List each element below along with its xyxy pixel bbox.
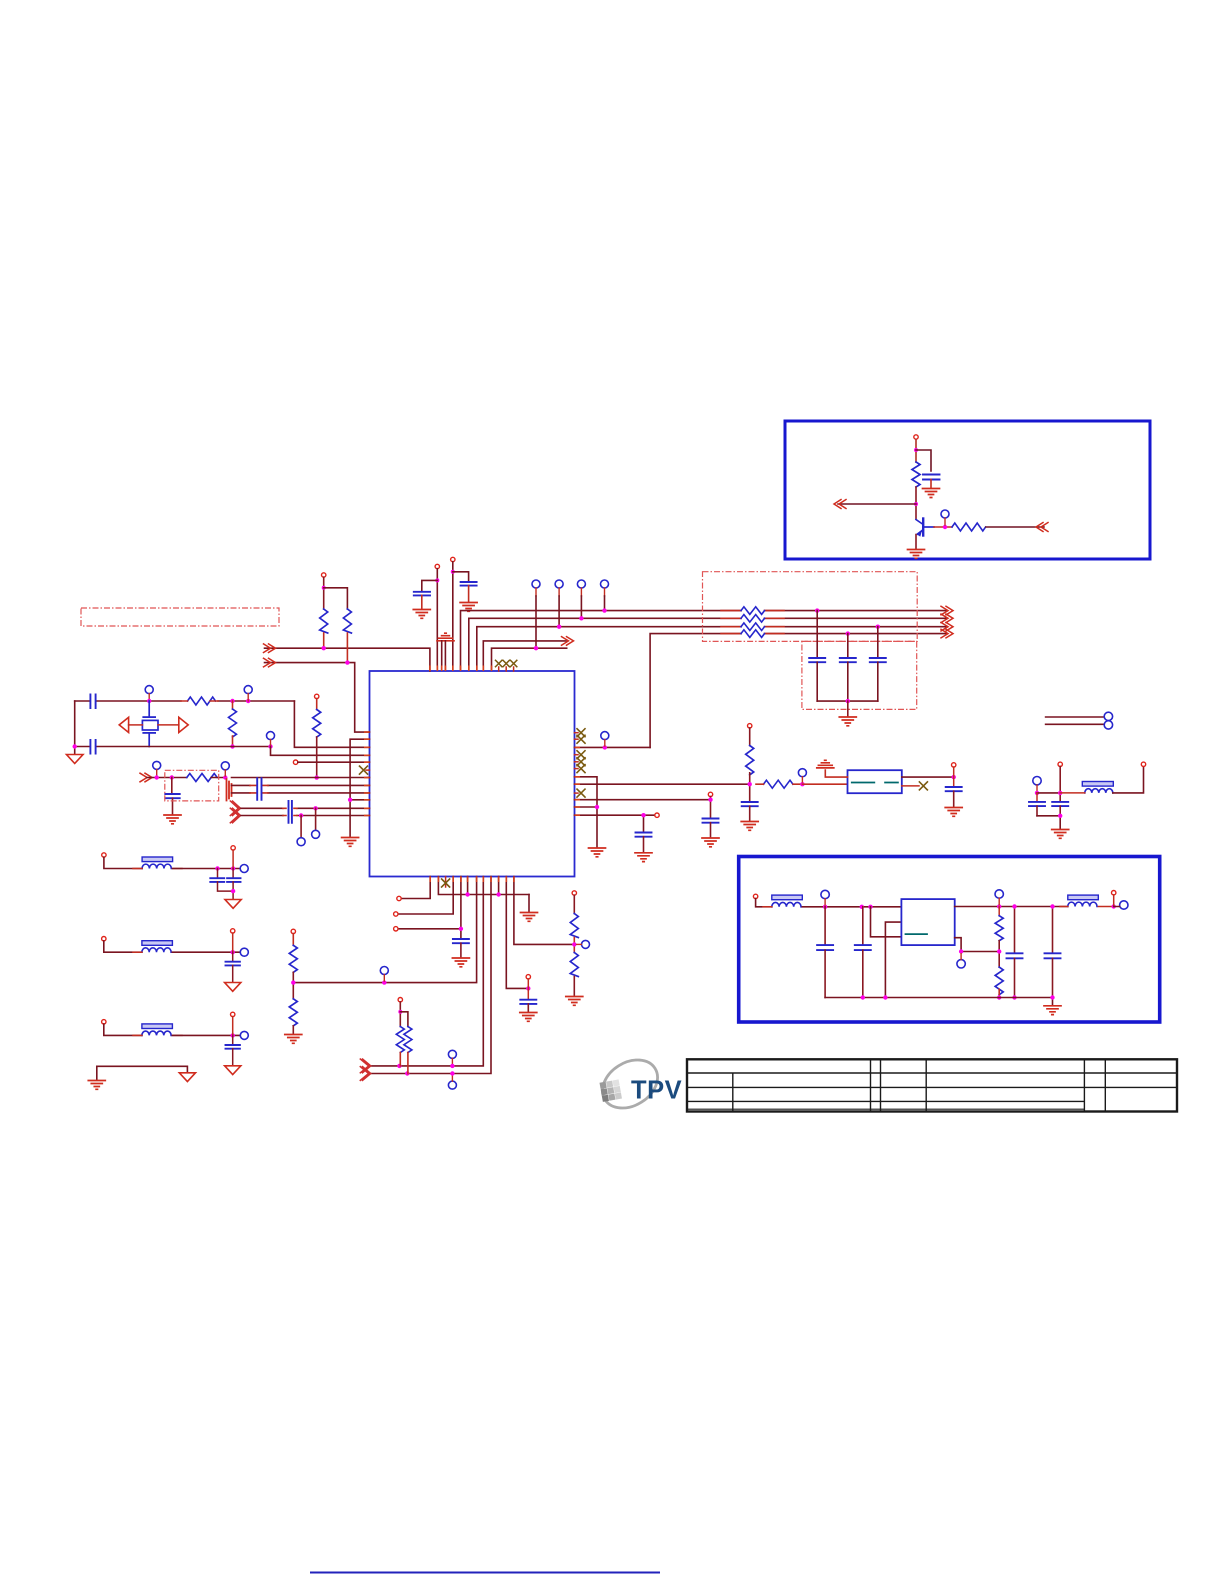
resistor RP4 — [741, 630, 765, 638]
arrow out L2 — [941, 614, 953, 623]
power terminal — [1141, 762, 1145, 766]
terminal small — [231, 1012, 235, 1016]
node H4 — [382, 980, 386, 984]
node K1 — [397, 1064, 401, 1068]
port circle P8 — [267, 732, 275, 740]
wire — [300, 816, 302, 838]
resistor RP1 — [741, 607, 765, 615]
wire — [172, 1034, 240, 1036]
wire crystal top net — [75, 700, 295, 702]
node M1 — [215, 866, 219, 870]
port circle P13 — [601, 732, 609, 740]
node P2j — [534, 646, 538, 650]
bus entry chevrons — [230, 801, 240, 823]
port circle P9 — [153, 761, 161, 769]
wire bus L3 — [477, 627, 946, 671]
inductor FB2 — [142, 857, 173, 862]
no-connect stub X4 — [366, 769, 370, 771]
node T1 — [322, 586, 326, 590]
power terminal VCC4 — [322, 573, 326, 577]
capacitor C2 — [414, 592, 430, 596]
ground — [413, 610, 430, 619]
title block table — [687, 1059, 1177, 1111]
port circle P10 — [221, 762, 229, 770]
wire L5 with arrow — [483, 641, 566, 671]
power terminal IF — [748, 724, 752, 728]
wire — [986, 526, 1044, 528]
ground — [285, 1035, 302, 1044]
wire — [1037, 792, 1060, 794]
node G2 — [299, 813, 303, 817]
resistor RP2 — [741, 615, 765, 623]
node P4j — [579, 616, 583, 620]
port circle P19 — [448, 1050, 456, 1058]
port circle P23 — [240, 948, 248, 956]
wire — [535, 596, 537, 648]
node X2c — [268, 744, 272, 748]
node V4 — [959, 949, 963, 953]
port circle P27 — [995, 890, 1003, 898]
wire — [802, 906, 901, 908]
node V9 — [1012, 995, 1016, 999]
node cap-bank — [846, 699, 850, 703]
node X2b — [230, 744, 234, 748]
capacitor C6 — [870, 658, 886, 662]
arrow marker left of crystal — [119, 717, 128, 732]
node K6 — [291, 980, 295, 984]
node X1b — [230, 699, 234, 703]
node V10 — [1050, 904, 1054, 908]
wire RC filter input — [147, 777, 187, 779]
node D3 — [708, 798, 712, 802]
node K4 — [450, 1064, 454, 1068]
series capacitor C11 (tall plates) — [289, 801, 292, 823]
node V7 — [997, 995, 1001, 999]
port circle P12 — [297, 838, 305, 846]
terminal small — [526, 975, 530, 979]
wire IC pin jog — [575, 777, 598, 847]
port circle P20 — [448, 1081, 456, 1089]
resistor R17 — [998, 907, 1000, 916]
node A3 — [943, 525, 947, 529]
node D5 — [800, 782, 804, 786]
left divider power terminal — [291, 929, 295, 933]
resistor RP3 — [741, 623, 765, 631]
arrow out L1 — [941, 606, 953, 615]
wire — [324, 588, 348, 609]
ground — [1052, 830, 1069, 839]
node M5 — [231, 1033, 235, 1037]
inductor FB5 — [772, 895, 803, 900]
node X2a — [73, 744, 77, 748]
ground — [1044, 1006, 1061, 1015]
ground — [88, 1081, 105, 1090]
wire reg gnd-pin drop — [885, 922, 901, 997]
no-connect stub X11 — [902, 785, 919, 787]
no-connect stub X1 — [498, 667, 500, 671]
wire reg enable loop — [871, 907, 902, 937]
wire red pin stubs at IC edges — [364, 666, 580, 883]
port circle P6 — [145, 686, 153, 694]
wire — [847, 634, 849, 657]
port circle P5 — [601, 580, 609, 588]
node B1 — [435, 578, 439, 582]
node V2 — [860, 905, 864, 909]
wire reg output — [955, 906, 1068, 908]
ground — [589, 848, 606, 857]
bottom rail wire — [825, 998, 1052, 1005]
port circle P26 — [957, 960, 965, 968]
power terminal VCC2 — [435, 564, 439, 568]
node K3 — [398, 1010, 402, 1014]
IC U1 main chip body — [370, 671, 575, 877]
wire — [298, 761, 370, 763]
ground — [923, 489, 940, 498]
node B2 — [451, 570, 455, 574]
resistor R2 — [952, 523, 986, 531]
wire pair B to IC — [241, 807, 370, 809]
wire gnd link — [97, 1066, 188, 1079]
port circle P1 — [941, 510, 949, 518]
ground — [741, 822, 758, 831]
capacitor C23 — [232, 1035, 234, 1044]
node G1 — [313, 806, 317, 810]
wire bus L2 — [469, 618, 946, 671]
box: top-right sub-circuit frame — [785, 421, 1150, 559]
resistor R3 — [188, 697, 216, 705]
capacitor C21 — [232, 869, 234, 878]
SAW filter U2 — [848, 770, 902, 793]
resistor R7 — [313, 710, 321, 738]
resistor R12 — [404, 1027, 412, 1053]
resistor R16 — [289, 999, 297, 1026]
wire — [604, 596, 606, 611]
wire reg adj pin — [955, 938, 1000, 952]
node P5j — [602, 608, 606, 612]
wire second feed to IC left — [265, 663, 370, 733]
capacitor C26 — [1014, 907, 1016, 953]
wire long net to IF — [575, 783, 750, 785]
wire — [915, 487, 917, 519]
wire — [400, 1012, 408, 1027]
capacitor C1 — [923, 475, 940, 480]
node A1 — [914, 448, 918, 452]
wire top-left feed to IC — [265, 648, 430, 671]
wire crystal top to IC XTAL1 — [294, 701, 369, 747]
wire — [934, 526, 952, 528]
wire bus L1 — [461, 611, 947, 671]
transistor Q1 — [916, 519, 934, 549]
port circle P28 — [1120, 901, 1128, 909]
node V8 — [1012, 904, 1016, 908]
node V11 — [861, 995, 865, 999]
wire — [172, 951, 240, 953]
node L3-C — [876, 625, 880, 629]
wire SAW out — [902, 776, 954, 778]
ground — [452, 958, 469, 967]
ground — [566, 997, 583, 1006]
resistor R4 — [232, 701, 234, 709]
crystal Y1 — [142, 701, 158, 747]
bus entry chevrons bottom — [360, 1059, 371, 1080]
wire net to IC pin — [232, 777, 370, 779]
wire — [877, 627, 879, 657]
ground — [521, 913, 538, 922]
ground triangle — [67, 755, 84, 764]
wire base lead-in — [838, 503, 916, 505]
arrow in net2 — [264, 658, 276, 667]
node X1a — [147, 699, 151, 703]
wire IC pin b10 end node — [498, 877, 500, 895]
port circle P17 — [1033, 777, 1041, 785]
bus ripper symbol — [227, 779, 232, 801]
arrow in net3 — [140, 773, 152, 782]
node D1 — [595, 805, 599, 809]
capacitor C15 — [946, 787, 962, 791]
no-connect stub X12 — [445, 877, 447, 888]
wire — [436, 569, 438, 671]
box: regulator sub-circuit frame — [739, 857, 1160, 1023]
wire crystal bottom to IC XTAL2 — [271, 747, 370, 756]
terminal small — [397, 896, 401, 900]
footer rule — [310, 1572, 660, 1574]
wire IC to tuner bus column — [575, 746, 651, 748]
terminal small left — [293, 760, 297, 764]
node M3 — [231, 889, 235, 893]
wire cap common — [1037, 816, 1060, 829]
resistor R10 — [764, 780, 793, 788]
resistor R5 — [320, 609, 328, 633]
inductor FB6 — [1068, 895, 1099, 900]
no-connect stub X9 — [575, 768, 579, 770]
capacitor C14 — [742, 802, 758, 806]
node V5 — [997, 904, 1001, 908]
arrow out L3 — [941, 622, 953, 631]
capacitor C4 — [809, 658, 825, 662]
wire — [580, 596, 582, 618]
ground — [839, 717, 856, 726]
port circle P25 — [821, 890, 829, 898]
resistor R13 — [570, 914, 578, 938]
series capacitor C8 — [90, 740, 95, 754]
resistor R15 — [289, 945, 297, 972]
arrow input right — [1036, 523, 1048, 532]
terminal small — [231, 929, 235, 933]
series capacitor C10 (tall plates) — [257, 778, 261, 800]
node D6 — [952, 775, 956, 779]
resistor R8 — [187, 774, 217, 782]
wire — [171, 778, 173, 794]
wire SAW gnd pin — [825, 770, 847, 777]
wire to SAW — [802, 783, 847, 785]
wire IC pin to cap2 — [575, 815, 656, 831]
label dashed box (empty note) — [81, 608, 279, 626]
wire — [816, 611, 818, 657]
resistor R14 — [570, 953, 578, 977]
inverted ground bar — [817, 760, 834, 768]
port circle P11 — [312, 830, 320, 838]
wire bus L4 from tuner column — [650, 634, 946, 748]
power terminal VCC1 — [914, 435, 918, 439]
port circle P3 — [555, 580, 563, 588]
terminal small — [1112, 891, 1116, 895]
no-connect stub X7 — [575, 754, 579, 756]
port circle P14 — [798, 769, 806, 777]
arrow in net1 — [264, 644, 276, 653]
terminal small — [952, 763, 956, 767]
wire cap-bank common — [817, 700, 878, 702]
capacitor-bank dashed box — [802, 641, 917, 709]
node K2 — [405, 1071, 409, 1075]
capacitor C25 — [862, 907, 864, 944]
inductor FB4 — [142, 1024, 173, 1029]
wire — [211, 777, 226, 779]
capacitor C3 — [461, 582, 477, 586]
ground triangle — [179, 1073, 195, 1082]
wire antenna pair top — [1046, 717, 1104, 724]
node X1c — [246, 699, 250, 703]
node D4 — [748, 782, 752, 786]
node G3 — [348, 798, 352, 802]
node T2 — [322, 646, 326, 650]
regulator input terminal — [753, 894, 757, 898]
wire IC pin b4 — [398, 877, 461, 939]
node H2 — [465, 892, 469, 896]
ground — [520, 1013, 537, 1022]
no-connect stub X10 — [575, 792, 579, 794]
capacitor C24 — [824, 907, 826, 944]
ground — [342, 838, 359, 847]
port circle P2 — [532, 580, 540, 588]
wire pair A to IC — [232, 784, 370, 786]
port circle P18 — [380, 967, 388, 975]
capacitor C17 — [1052, 802, 1068, 806]
node V12 — [883, 995, 887, 999]
capacitor C13 — [703, 819, 719, 823]
TPV logo — [594, 1050, 683, 1118]
divider top terminal — [572, 891, 576, 895]
port circle P4 — [577, 580, 585, 588]
wire IC pin b7 long left net — [293, 877, 476, 983]
node T3 — [345, 660, 349, 664]
inverted ground bar (power return) — [437, 633, 454, 641]
series capacitor C7 — [90, 695, 95, 709]
no-connect stub X8 — [575, 761, 579, 763]
arrow input left — [834, 500, 846, 509]
capacitor C9 — [165, 794, 179, 798]
ground triangle — [225, 900, 241, 909]
ground — [702, 838, 719, 847]
port circle P15 — [1104, 712, 1112, 720]
terminal small — [708, 792, 712, 796]
resistor R6 — [343, 609, 351, 633]
capacitor C22 — [232, 952, 234, 961]
capacitor C19 — [520, 1000, 536, 1004]
ground triangle — [225, 983, 241, 992]
wire IC pin b12 — [514, 877, 574, 945]
wire — [441, 641, 443, 671]
wire IC pin b5 end node — [467, 877, 469, 895]
node H6 — [572, 942, 576, 946]
ground — [460, 603, 477, 612]
wire crystal bottom net — [75, 746, 271, 748]
wire IC pin b2 — [438, 877, 529, 895]
no-connect stub X5 — [575, 732, 579, 734]
ground triangle — [225, 1066, 241, 1075]
capacitor C12 — [636, 833, 652, 837]
resistor R9 — [746, 746, 754, 775]
terminal small — [231, 846, 235, 850]
wire — [916, 450, 931, 471]
terminal small — [655, 813, 659, 817]
wire IC pin — [575, 806, 598, 808]
node M4 — [231, 950, 235, 954]
wire — [915, 440, 917, 463]
power terminal — [398, 998, 402, 1002]
wire — [173, 868, 240, 870]
node F1 — [155, 775, 159, 779]
wire left vertical — [74, 701, 76, 754]
wire IC pin b1 — [401, 877, 430, 899]
node F2 — [170, 775, 174, 779]
node L1-C — [815, 608, 819, 612]
power terminal — [1058, 762, 1062, 766]
inductor FB3 — [142, 941, 173, 946]
resistor R11 — [396, 1027, 404, 1053]
ground — [635, 853, 652, 862]
capacitor C16 — [1036, 793, 1038, 801]
resistor R18 — [995, 967, 1003, 995]
port circle P16 — [1104, 721, 1112, 729]
no-connect stub X3 — [513, 667, 515, 671]
wire gnd drop — [528, 895, 530, 912]
wire — [847, 701, 849, 716]
node D2 — [641, 813, 645, 817]
inductor FB1 — [1082, 782, 1113, 787]
wire — [453, 572, 469, 581]
node V14 — [1112, 904, 1116, 908]
node M2 — [231, 866, 235, 870]
terminal small — [394, 927, 398, 931]
wire IC pin b8 — [372, 877, 484, 1066]
node F3 — [223, 775, 227, 779]
port circle P22 — [240, 865, 248, 873]
node A2 — [914, 502, 918, 506]
wire IC pin gnd — [350, 739, 369, 836]
arrow marker right of crystal — [179, 717, 188, 732]
node R7j — [315, 775, 319, 779]
no-connect stub X6 — [575, 738, 579, 740]
node V6 — [997, 949, 1001, 953]
ground — [164, 815, 181, 824]
port circle P21 — [582, 940, 590, 948]
node R1j — [603, 745, 607, 749]
node V13 — [1050, 995, 1054, 999]
svg-text:TPV: TPV — [631, 1077, 682, 1105]
RC filter dashed box — [165, 770, 219, 801]
port circle P24 — [240, 1031, 248, 1039]
node E1 — [1035, 791, 1039, 795]
node E2 — [1058, 791, 1062, 795]
node K5 — [450, 1071, 454, 1075]
filter1 input terminal — [102, 853, 106, 857]
wire — [422, 580, 438, 590]
wire — [558, 596, 560, 627]
capacitor C5 — [840, 658, 856, 662]
node L4-C — [846, 631, 850, 635]
node H1 — [459, 927, 463, 931]
wire IC pin b3 — [398, 877, 453, 915]
